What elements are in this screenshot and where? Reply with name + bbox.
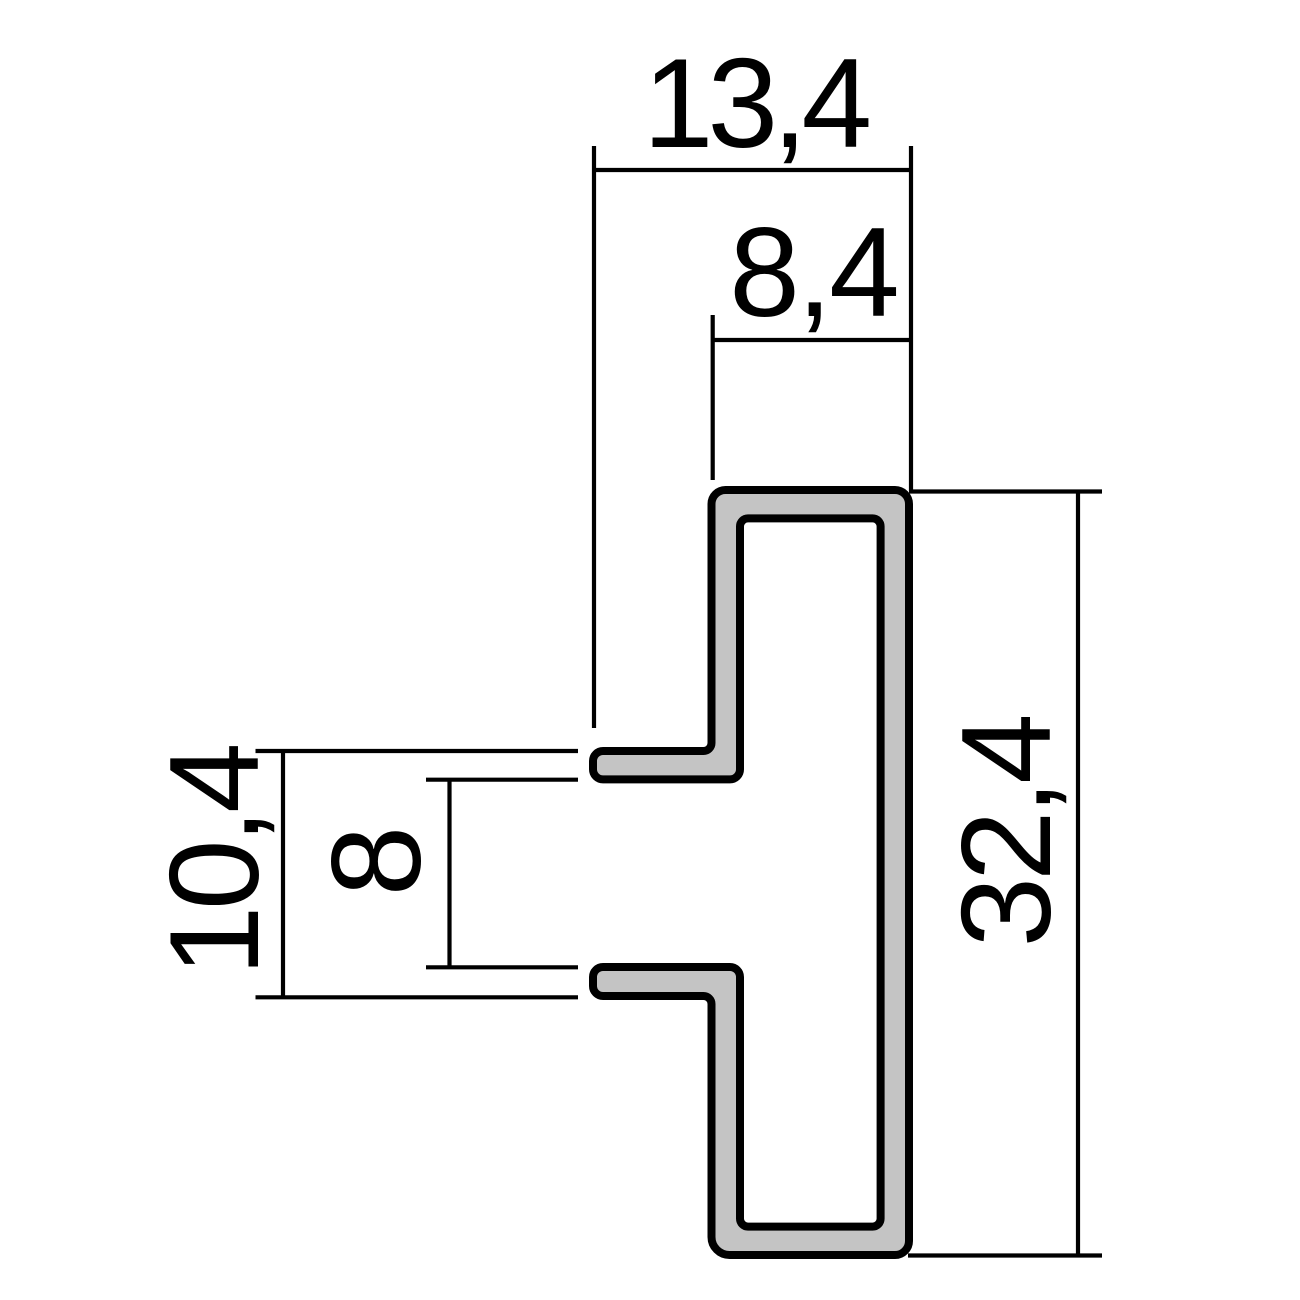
svg-text:8: 8 [305, 826, 447, 897]
svg-text:32,4: 32,4 [935, 717, 1077, 948]
svg-text:8,4: 8,4 [729, 201, 897, 343]
svg-text:13,4: 13,4 [643, 32, 869, 174]
svg-text:10,4: 10,4 [143, 746, 285, 976]
